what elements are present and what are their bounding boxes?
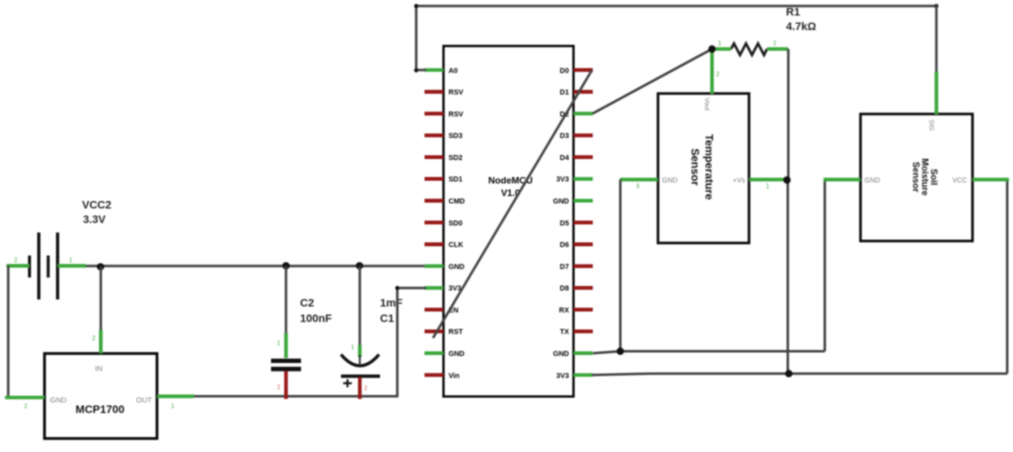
- wire: NodeMCU right 3V3 rail: [592, 374, 1007, 375]
- wire: RST to D0 diagonal: [433, 70, 592, 338]
- wire: battery- stub (green): [7, 264, 30, 268]
- svg-text:3V3: 3V3: [556, 371, 569, 380]
- pin label: NodeMCU GND (left row 10): [449, 262, 465, 271]
- pin label: NodeMCU RSV (left row 2): [449, 88, 464, 97]
- wire: MCP1700 IN stub (green): [99, 330, 103, 354]
- pin label: NodeMCU D8 (right row 11): [560, 284, 569, 293]
- pin stub: NodeMCU left EN (row 12): [425, 308, 444, 312]
- pin label: NodeMCU D6 (right row 9): [560, 240, 569, 249]
- wire: +Vs junction drop to 3V3 rail: [787, 180, 790, 374]
- pin stub: NodeMCU left CMD (row 7): [425, 199, 444, 203]
- svg-text:1mF: 1mF: [380, 298, 403, 310]
- svg-text:SD3: SD3: [449, 131, 463, 140]
- svg-text:D6: D6: [560, 240, 569, 249]
- wire: A0 riser vertical: [415, 5, 426, 70]
- wire: C2 bottom stub (red unrouted): [284, 371, 288, 399]
- wire: R1 junction to temp Vout (green): [710, 49, 714, 94]
- svg-text:SD1: SD1: [449, 175, 463, 184]
- svg-text:GND: GND: [553, 349, 569, 358]
- temperature sensor module body: [658, 94, 749, 244]
- pin label: NodeMCU 3V3 (right row 15): [556, 371, 569, 380]
- pin stub: NodeMCU right D2 (row 3): [574, 112, 593, 116]
- wire: C2 top stub (green): [284, 333, 288, 358]
- battery VCC2: [30, 233, 58, 300]
- svg-text:Temperature: Temperature: [703, 134, 715, 200]
- pin label: NodeMCU D0 (right row 1): [560, 66, 569, 75]
- pin label: NodeMCU SD0 (left row 8): [449, 218, 463, 227]
- svg-text:D4: D4: [560, 153, 569, 162]
- pin stub: NodeMCU left SD3 (row 4): [425, 133, 444, 137]
- pin number: temp Vout pin 2: [716, 72, 720, 78]
- pin stub: NodeMCU right D8 (row 11): [574, 286, 593, 290]
- svg-text:+Vs: +Vs: [733, 178, 746, 185]
- pin stub: NodeMCU left A0 (row 1): [425, 68, 444, 72]
- node: junction +Vs / R1 drop: [783, 176, 790, 183]
- svg-text:RSV: RSV: [449, 109, 464, 118]
- wire: battery+ stub (green): [58, 264, 86, 268]
- svg-text:C1: C1: [380, 313, 394, 325]
- svg-text:TX: TX: [560, 327, 569, 336]
- label: VCC2 3.3V value: [82, 200, 111, 227]
- wire: soil sensor VCC stub (green): [973, 178, 1010, 182]
- svg-text:Sensor: Sensor: [689, 148, 701, 186]
- pin number: battery pin 2: [14, 258, 18, 264]
- pin stub: NodeMCU left 3V3 (row 11): [425, 286, 444, 290]
- pin label: NodeMCU D4 (right row 5): [560, 153, 569, 162]
- pin label: NodeMCU SD1 (left row 6): [449, 175, 463, 184]
- pin stub: NodeMCU right D5 (row 8): [574, 221, 593, 225]
- svg-text:D8: D8: [560, 284, 569, 293]
- svg-text:Vout: Vout: [703, 98, 710, 111]
- pin stub: NodeMCU right TX (row 13): [574, 329, 593, 333]
- pin label: NodeMCU GND (right row 7): [553, 197, 569, 206]
- pin number: R1 pin 2: [773, 41, 777, 47]
- capacitor C1 electrolytic plates: [341, 355, 380, 388]
- svg-text:3V3: 3V3: [556, 175, 569, 184]
- pin stub: NodeMCU right 3V3 (row 15): [574, 373, 593, 377]
- pin stub: NodeMCU right 3V3 (row 6): [574, 177, 593, 181]
- pin stub: NodeMCU left RSV (row 2): [425, 90, 444, 94]
- svg-text:100nF: 100nF: [300, 313, 332, 325]
- pin number: temp GND pin 3: [636, 184, 640, 190]
- label: C2 designator and value: [300, 298, 332, 326]
- wire: temp GND drop to GND rail: [619, 180, 622, 351]
- pin number: battery pin 1: [69, 258, 73, 264]
- node: bend at 3V3 corner: [395, 286, 399, 290]
- svg-text:IN: IN: [95, 364, 103, 373]
- pin number: C2 pin 2: [277, 385, 281, 391]
- wire: C2 tap drop (grey): [285, 266, 288, 335]
- svg-text:D7: D7: [560, 262, 569, 271]
- wire: SIG riser vertical (grey): [935, 5, 938, 72]
- wire: temp sensor +Vs stub (green): [749, 178, 787, 182]
- wire: temp sensor GND stub (green): [620, 178, 658, 182]
- pin number: C2 pin 1: [277, 341, 281, 347]
- pin label: NodeMCU D1 (right row 2): [560, 88, 569, 97]
- pin stub: NodeMCU right D4 (row 5): [574, 155, 593, 159]
- pin label: NodeMCU D7 (right row 10): [560, 262, 569, 271]
- pin label: NodeMCU RST (left row 13): [449, 327, 464, 336]
- svg-text:D1: D1: [560, 88, 569, 97]
- wire: C1 lead through arc: [359, 355, 361, 366]
- pin number: R1 pin 1: [718, 41, 722, 47]
- wire: battery+ rail to NodeMCU GND: [85, 265, 425, 268]
- svg-text:MCP1700: MCP1700: [76, 404, 125, 416]
- svg-text:RST: RST: [449, 327, 464, 336]
- wire: SIG riser (green part): [935, 72, 939, 115]
- node: junction C1 tap: [356, 262, 363, 269]
- pin label: NodeMCU RX (right row 12): [559, 305, 569, 314]
- pin number: MCP1700 IN pin 3: [92, 336, 96, 342]
- wire: R1 left lead (green): [712, 47, 731, 51]
- pin label: NodeMCU TX (right row 13): [560, 327, 569, 336]
- svg-text:SIG: SIG: [928, 120, 935, 131]
- svg-text:A0: A0: [449, 66, 458, 75]
- label: C1 designator and value: [380, 298, 403, 326]
- node: junction GND rail / temp GND drop: [617, 348, 624, 355]
- pin label: NodeMCU D3 (right row 4): [560, 131, 569, 140]
- pin label: NodeMCU SD3 (left row 4): [449, 131, 463, 140]
- wire: C1 top stub (green): [358, 345, 362, 357]
- wire: junction down to MCP1700 IN (grey): [100, 267, 103, 332]
- pin stub: NodeMCU left GND (row 14): [425, 351, 444, 355]
- pin stub: NodeMCU right D3 (row 4): [574, 133, 593, 137]
- pin stub: NodeMCU right RX (row 12): [574, 308, 593, 312]
- svg-text:GND: GND: [50, 396, 67, 405]
- wire: soil sensor GND stub (green): [824, 178, 861, 182]
- svg-text:GND: GND: [553, 197, 569, 206]
- pin label: NodeMCU 3V3 (right row 6): [556, 175, 569, 184]
- svg-text:CMD: CMD: [449, 197, 465, 206]
- pin number: C1 pin 1: [351, 345, 355, 351]
- pin stub: NodeMCU left SD1 (row 6): [425, 177, 444, 181]
- wire: R1 drop to +Vs junction: [787, 49, 790, 180]
- pin number: MCP1700 OUT pin 1: [171, 404, 175, 410]
- pin stub: NodeMCU left CLK (row 9): [425, 242, 444, 246]
- pin stub: NodeMCU left GND (row 10): [425, 264, 444, 268]
- wire: 3V3 rail riser to soil VCC: [1006, 180, 1009, 374]
- label: R1 value 4.7kOhm: [786, 21, 816, 33]
- pin stub: NodeMCU right D0 (row 1): [574, 68, 593, 72]
- pin label: NodeMCU RSV (left row 3): [449, 109, 464, 118]
- svg-text:SD2: SD2: [449, 153, 463, 162]
- svg-text:R1: R1: [786, 7, 800, 19]
- pin number: MCP1700 GND pin 2: [24, 404, 28, 410]
- pin stub: NodeMCU right GND (row 14): [574, 351, 593, 355]
- pin number: C1 pin 2: [364, 386, 368, 392]
- pin stub: NodeMCU right D7 (row 10): [574, 264, 593, 268]
- pin label: NodeMCU SD2 (left row 5): [449, 153, 463, 162]
- svg-text:GND: GND: [865, 178, 881, 185]
- wire: NodeMCU right GND rail: [593, 351, 825, 353]
- wire: D2 to R1 junction diagonal: [593, 49, 713, 114]
- pin stub: NodeMCU left SD2 (row 5): [425, 155, 444, 159]
- pin label: NodeMCU D2 (right row 3): [560, 109, 569, 118]
- svg-text:GND: GND: [449, 349, 465, 358]
- svg-text:GND: GND: [662, 178, 678, 185]
- svg-text:3.3V: 3.3V: [83, 214, 106, 226]
- wire: MCP1700 OUT stub (green): [157, 394, 194, 398]
- pin stub: NodeMCU left RST (row 13): [425, 329, 444, 333]
- microcontroller U1 NodeMCU V1.0 body: [444, 46, 574, 397]
- pin label: NodeMCU CMD (left row 7): [449, 197, 465, 206]
- svg-text:RX: RX: [559, 305, 569, 314]
- resistor R1 zigzag: [731, 44, 767, 56]
- svg-text:Vin: Vin: [449, 371, 460, 380]
- svg-text:4.7kΩ: 4.7kΩ: [786, 21, 816, 33]
- pin label: NodeMCU A0 (left row 1): [449, 66, 458, 75]
- svg-text:D0: D0: [560, 66, 569, 75]
- pin label: NodeMCU 3V3 (left row 11): [449, 284, 462, 293]
- svg-text:Sensor: Sensor: [911, 162, 921, 193]
- node: junction at battery output: [97, 263, 104, 270]
- node: junction R1/D2/Vout: [708, 45, 715, 52]
- wire: MCP1700 GND stub (green): [5, 396, 45, 400]
- pin label: NodeMCU D5 (right row 8): [560, 218, 569, 227]
- svg-text:D5: D5: [560, 218, 569, 227]
- wire: C1 bottom stub (red unrouted): [358, 377, 362, 399]
- pin label: NodeMCU Vin (left row 15): [449, 371, 460, 380]
- pin stub: NodeMCU right D1 (row 2): [574, 90, 593, 94]
- svg-text:GND: GND: [449, 262, 465, 271]
- pin stub: NodeMCU left Vin (row 15): [425, 373, 444, 377]
- svg-text:CLK: CLK: [449, 240, 465, 249]
- pin label: NodeMCU CLK (left row 9): [449, 240, 465, 249]
- wire: R1 right lead (green): [767, 47, 788, 51]
- pin label: NodeMCU GND (right row 14): [553, 349, 569, 358]
- wire: top rail from A0 riser to soil SIG riser: [415, 5, 937, 8]
- node: junction C2 tap: [282, 262, 289, 269]
- pin stub: NodeMCU left SD0 (row 8): [425, 221, 444, 225]
- capacitor C2 plates: [271, 361, 301, 369]
- svg-text:RSV: RSV: [449, 88, 464, 97]
- node: bend top-left corner: [414, 4, 418, 73]
- wire: battery- vertical drop: [7, 266, 10, 398]
- node: junction 3V3 rail / +Vs drop: [785, 370, 792, 377]
- wire: GND rail riser to soil GND: [824, 180, 827, 352]
- voltage regulator MCP1700 body: [45, 354, 158, 439]
- pin stub: NodeMCU left RSV (row 3): [425, 112, 444, 116]
- pin label: NodeMCU EN (left row 12): [449, 305, 459, 314]
- soil moisture sensor module body: [861, 114, 973, 241]
- wire: OUT riser to 3V3: [397, 288, 426, 397]
- svg-text:D3: D3: [560, 131, 569, 140]
- pin stub: NodeMCU right D6 (row 9): [574, 242, 593, 246]
- svg-text:OUT: OUT: [136, 396, 152, 405]
- pin label: NodeMCU GND (left row 14): [449, 349, 465, 358]
- svg-text:SD0: SD0: [449, 218, 463, 227]
- wire: OUT run right: [194, 395, 397, 398]
- svg-text:VCC2: VCC2: [82, 200, 111, 212]
- node: bend top-right corner: [934, 4, 938, 8]
- svg-text:VCC: VCC: [952, 178, 967, 185]
- pin stub: NodeMCU right GND (row 7): [574, 199, 593, 203]
- svg-text:C2: C2: [300, 298, 314, 310]
- wire: C1 tap drop (grey): [359, 266, 362, 347]
- label: R1 designator: [786, 7, 800, 19]
- pin number: temp +Vs pin 1: [766, 184, 770, 190]
